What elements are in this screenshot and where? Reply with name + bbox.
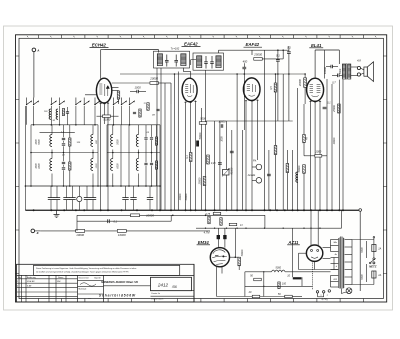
- capacitor mid 231: [230, 150, 234, 152]
- title note box: [34, 265, 180, 275]
- tuner bus junction dots: [25, 185, 27, 187]
- transformer tap wires right: [345, 239, 352, 241]
- svg-text:70000: 70000: [241, 249, 244, 256]
- antenna trimmer cap: [66, 111, 69, 113]
- svg-text:Geprüft: Geprüft: [94, 276, 101, 279]
- tube EM34 target display: [212, 250, 227, 265]
- svg-text:5000: 5000: [339, 68, 342, 74]
- svg-text:10000: 10000: [333, 137, 336, 144]
- dial lamp: [346, 288, 352, 294]
- wire jack connections: [252, 166, 256, 168]
- drawing number box: [151, 277, 192, 290]
- resistor 10000 on y215: [131, 214, 140, 217]
- resistor 50 A: [254, 278, 262, 281]
- wire heater vertical 263.8: [263, 272, 265, 297]
- svg-text:5000: 5000: [362, 274, 364, 280]
- svg-text:25000: 25000: [199, 177, 202, 185]
- oscillator coil block2 row1 left: [111, 135, 113, 147]
- field coil left: [296, 172, 298, 182]
- wire 341.5 link: [341, 210, 343, 228]
- tube EAF42 II envelope: [243, 78, 260, 101]
- svg-text:20: 20: [248, 291, 252, 294]
- tube AZ11 filament arcs: [311, 249, 319, 258]
- svg-text:2412: 2412: [157, 282, 169, 287]
- svg-text:30000: 30000: [185, 193, 188, 200]
- wire switch stubs down to bus: [26, 106, 28, 125]
- tube AZ11 envelope: [306, 245, 322, 261]
- block2 caps cluster: [144, 137, 147, 139]
- svg-text:4,7Ω₂: 4,7Ω₂: [321, 298, 327, 301]
- svg-text:4,7M: 4,7M: [204, 230, 211, 234]
- svg-text:EAF42: EAF42: [245, 42, 259, 47]
- title revision table lines: [17, 278, 78, 280]
- wire 20000 to ECH42: [112, 82, 150, 84]
- resistor 1000 horizontal: [315, 155, 322, 158]
- wire EM34 grid drops: [217, 228, 219, 247]
- resistor 10 dark: [293, 277, 302, 279]
- resistor 4.5 vertical: [303, 135, 306, 143]
- wire heater bus A: [245, 271, 272, 273]
- transformer tap wires left: [331, 239, 339, 241]
- block2 resistors cluster: [155, 137, 157, 145]
- tuner top bus dots: [33, 124, 35, 126]
- resistor 100 vertical: [278, 282, 280, 289]
- svg-text:50000: 50000: [298, 165, 301, 172]
- wire mains feed down: [359, 211, 361, 291]
- svg-text:6,75: 6,75: [206, 214, 211, 216]
- tube EL41 envelope: [307, 78, 324, 101]
- wire mains right verticals: [351, 240, 353, 285]
- svg-text:6000: 6000: [118, 163, 120, 169]
- svg-text:EM34: EM34: [198, 240, 210, 245]
- svg-text:20000: 20000: [299, 79, 302, 88]
- svg-text:5000: 5000: [276, 267, 282, 270]
- wire bus y228 right half: [196, 227, 342, 229]
- Ersatz cells: [151, 290, 195, 292]
- svg-text:1000: 1000: [134, 86, 141, 90]
- frame ruler ticks bottom: [39, 299, 364, 303]
- svg-text:10000: 10000: [219, 121, 227, 124]
- IF1 secondary tuning capacitor: [174, 59, 178, 61]
- tube ECH42 envelope: [96, 78, 111, 103]
- wire output transformer drop: [338, 50, 340, 64]
- mains terminal circles: [373, 258, 375, 260]
- ganged tuning capacitor symbol: [77, 196, 82, 201]
- svg-text:1A: 1A: [378, 248, 381, 251]
- band switch extra: [95, 101, 100, 105]
- frame ruler numerals top: [27, 36, 376, 37]
- wire AZ11 to transformer taps: [323, 247, 331, 249]
- title block outline: [17, 264, 195, 302]
- svg-text:S c h a l t b i l d 5 0 6 W: S c h a l t b i l d 5 0 6 W: [99, 294, 136, 298]
- resistor 13: [229, 223, 237, 225]
- power transformer secondary winding: [343, 238, 344, 288]
- svg-text:Maßstab: Maßstab: [79, 287, 88, 290]
- RF coil block1 row2 left: [50, 159, 52, 171]
- oscillator coil block2 row2 left: [111, 159, 113, 171]
- wire ECH42 grid lead left: [85, 94, 97, 96]
- resistor 6.75: [213, 212, 221, 214]
- resistor mid 191: [189, 153, 192, 162]
- tube EAF42 envelope: [182, 78, 197, 102]
- resistor 20000 (osc anode): [150, 82, 159, 85]
- wire mid verticals A: [160, 68, 162, 210]
- wire 51000 stubs: [97, 115, 103, 117]
- svg-text:220: 220: [332, 279, 337, 281]
- resistor 70000 vertical: [238, 257, 241, 266]
- title table header line: [17, 274, 195, 276]
- block1 caps row1: [62, 137, 65, 139]
- wire ECH42 cathode drops: [100, 103, 102, 211]
- svg-text:51000: 51000: [103, 119, 111, 122]
- wire tuner top bus block2: [107, 124, 160, 126]
- svg-text:1000: 1000: [221, 136, 224, 142]
- resistor 25000 vertical mid: [203, 177, 206, 186]
- svg-text:100: 100: [282, 283, 287, 286]
- speaker terminals: [357, 66, 360, 69]
- tuner mid dots: [30, 152, 32, 154]
- power transformer primary winding: [339, 238, 340, 288]
- svg-text:3000: 3000: [36, 163, 38, 169]
- transformer left vertical links: [330, 240, 332, 252]
- wire EL41 drops: [310, 101, 312, 211]
- mixer grid cluster cap A: [133, 111, 136, 113]
- potentiometer jack lower: [256, 178, 262, 184]
- svg-text:10000: 10000: [179, 193, 182, 200]
- vertical 157: [156, 68, 158, 210]
- chassis bus end circle: [359, 209, 362, 212]
- tube EAF42 II electrodes: [247, 84, 256, 96]
- wire IF1 secondary to EAF42 grid: [182, 68, 184, 72]
- IF2 primary winding: [197, 56, 202, 68]
- wire AZ11 anode drops: [310, 210, 312, 245]
- wire EAF42 anode to IF2: [191, 59, 196, 61]
- fuse 1A upper: [372, 245, 376, 252]
- RF coil block1 row1 left: [50, 135, 52, 147]
- block1 caps row2: [62, 161, 65, 163]
- drawing frame inner border: [19, 38, 383, 298]
- frame ruler ticks top: [39, 35, 364, 39]
- trimmer right pair: [147, 197, 153, 199]
- wire bus y215: [77, 214, 265, 216]
- company cell underline: [104, 285, 151, 287]
- resistor 10000 on y231 B: [117, 230, 126, 233]
- potentiometer Ph jack upper: [256, 164, 262, 170]
- IF1 secondary winding: [181, 54, 186, 66]
- wire cathode tap: [299, 269, 339, 271]
- wire bus y221: [77, 220, 171, 222]
- volume potentiometer 51000: [223, 170, 230, 176]
- wire pins links: [312, 263, 314, 291]
- tube EM34 envelope: [210, 248, 229, 267]
- vertical line 324.5: [324, 50, 326, 79]
- tube EAF42 electrodes: [185, 84, 193, 97]
- svg-text:10000: 10000: [323, 66, 327, 74]
- svg-text:Ersetzt durch: Ersetzt durch: [152, 298, 164, 301]
- svg-text:1A: 1A: [378, 274, 381, 277]
- wire bus y231: [40, 230, 210, 232]
- junction y215: [172, 215, 174, 217]
- RF coil block1 row2 right: [91, 159, 93, 171]
- wire 25000 right to decoupling: [262, 58, 283, 60]
- capacitor 400: [242, 66, 246, 68]
- trimmer block2 pairs: [122, 197, 128, 199]
- svg-text:2M: 2M: [151, 115, 155, 117]
- wire top bus IF2 to EAF42 II: [218, 50, 220, 53]
- mains switch arrow: [371, 258, 376, 262]
- tube EL41 electrodes: [310, 85, 321, 97]
- svg-text:10000: 10000: [76, 233, 84, 237]
- wire ECH42 anode to top bus: [100, 50, 102, 79]
- wire right verticals: [297, 88, 299, 210]
- wire IF2 bus extension: [252, 49, 289, 51]
- resistor 50000 vertical right: [303, 165, 306, 174]
- oscillator coil block2 row1 right: [136, 135, 138, 147]
- svg-text:A: A: [36, 48, 39, 52]
- wire E to bus: [35, 230, 41, 232]
- wire EL41 top bus: [314, 50, 316, 78]
- title middle column lines: [77, 275, 79, 301]
- svg-text:/56: /56: [171, 285, 177, 289]
- svg-text:ECH42: ECH42: [92, 42, 107, 47]
- tuner vertical wires: [24, 106, 26, 210]
- wire transformer bottom to lamp: [340, 289, 342, 294]
- wire down to title area: [264, 215, 266, 228]
- svg-text:4,8: 4,8: [357, 59, 361, 63]
- wire verticals title area: [76, 215, 78, 231]
- trimmer capacitors row: [48, 197, 54, 199]
- resistor small EM34 B: [223, 235, 226, 239]
- resistor 25000 EL41 cathode: [338, 104, 341, 113]
- svg-text:0,7: 0,7: [332, 81, 336, 85]
- tube pin ticks: [100, 103, 102, 105]
- resistor 10000 on y231 A: [76, 230, 85, 233]
- block1 resistor row1: [69, 138, 71, 146]
- component blob 197: [196, 141, 199, 147]
- wire mid verticals B: [214, 121, 216, 210]
- IF2 tuning capacitor B: [210, 61, 214, 63]
- IF1 primary tuning capacitor: [166, 55, 168, 61]
- frame ruler ticks right: [383, 56, 386, 274]
- resistor 50 B: [285, 295, 293, 298]
- svg-text:400: 400: [243, 59, 248, 63]
- mixer grid cluster resistor A: [139, 109, 141, 117]
- svg-text:EAF42: EAF42: [184, 41, 198, 46]
- resistor 0.25 capacitor: [218, 162, 222, 164]
- resistor 5000 mid: [199, 122, 207, 125]
- svg-text:MINERVA-RADIO Wien VII: MINERVA-RADIO Wien VII: [101, 280, 138, 284]
- block1 resistor row2: [69, 162, 71, 170]
- IF transformer Tr I box: [154, 51, 190, 68]
- svg-text:Anode: Anode: [247, 173, 256, 177]
- IF2 secondary winding: [216, 56, 221, 68]
- svg-text:50000: 50000: [199, 132, 202, 139]
- wire heater bus B: [245, 285, 313, 287]
- svg-text:51000: 51000: [230, 167, 233, 174]
- switch mains upper: [373, 238, 375, 245]
- tuner mid horizontal A: [31, 152, 98, 154]
- junction AVC: [244, 73, 246, 75]
- resistor 51000: [103, 115, 111, 118]
- resistor 20000 vertical (EL41 grid): [304, 78, 307, 88]
- resistor ECH42 right: [117, 91, 120, 99]
- junction y228: [205, 228, 206, 229]
- svg-text:Ph.: Ph.: [253, 159, 257, 163]
- tube ECH42 electrodes: [99, 84, 109, 96]
- wire mains connections: [373, 278, 375, 285]
- chassis bus: [25, 209, 358, 211]
- capacitor 0.1 on y221: [107, 219, 109, 223]
- wire EAF42 II drops: [245, 100, 247, 210]
- svg-text:Tr.=182: Tr.=182: [171, 47, 180, 51]
- oscillator coil block2 row2 right: [136, 159, 138, 171]
- wire EM34 anode right: [230, 256, 236, 258]
- IF1 primary winding: [157, 54, 162, 66]
- IF2 tuning capacitor A: [204, 61, 208, 63]
- capacitor (tone) EL41: [330, 65, 332, 69]
- heater wiring choke 5000: [272, 270, 286, 272]
- svg-text:AZ11: AZ11: [287, 240, 299, 245]
- resistor small EM34 A: [217, 235, 220, 239]
- wire antenna lead down: [33, 52, 35, 98]
- tuner mid horizontal B: [107, 152, 160, 154]
- junction IF2 bus: [277, 49, 279, 51]
- fuse 1A lower: [372, 271, 376, 278]
- capacitor 0.1 EL41 cathode: [323, 106, 327, 108]
- mixer grid cluster cap B: [156, 108, 159, 110]
- svg-text:5000: 5000: [200, 117, 206, 120]
- wire transformer to speaker: [351, 66, 358, 68]
- svg-text:WH: WH: [57, 281, 61, 283]
- svg-text:1000: 1000: [96, 163, 98, 169]
- band switch contact row stubs: [26, 98, 28, 104]
- antenna coil upper B: [56, 109, 58, 119]
- capacitor 1000 (osc grid): [136, 90, 138, 93]
- frame ruler ticks left: [16, 56, 20, 274]
- resistor mid 275: [274, 146, 277, 155]
- IF transformer Tr II box: [193, 53, 224, 70]
- resistor 20: [252, 295, 260, 298]
- terminal E: [31, 229, 35, 233]
- power transformer core: [340, 237, 342, 289]
- svg-text:10000: 10000: [146, 214, 154, 218]
- band switch contact row: [27, 101, 32, 105]
- wire 292.7 down: [292, 228, 294, 277]
- loudspeaker: [364, 67, 367, 76]
- wire tuner top bus block1: [31, 124, 98, 126]
- antenna coil upper A: [49, 109, 51, 119]
- resistor vertical 221 interbus: [220, 218, 222, 226]
- capacitor 10000 mid: [220, 124, 222, 128]
- svg-text:25000: 25000: [333, 105, 336, 113]
- wire EAF42 drops: [185, 102, 187, 211]
- resistor vertical 208: [207, 155, 210, 164]
- AZ11 socket pins: [316, 291, 318, 293]
- svg-text:ist sträflich und wird gericht: ist sträflich und wird gerichtlich verfo…: [36, 271, 129, 274]
- svg-text:Gezeichnet: Gezeichnet: [79, 276, 90, 279]
- ECH42 pin leads right: [112, 87, 119, 89]
- capacitor mid 268: [267, 173, 271, 175]
- svg-text:6000: 6000: [39, 163, 41, 169]
- wire EM34 cathode drops: [216, 266, 218, 273]
- svg-text:10000: 10000: [118, 233, 126, 237]
- antenna terminal A: [32, 48, 36, 52]
- mixer grid cluster resistor B: [147, 103, 149, 111]
- svg-text:0,1: 0,1: [114, 219, 118, 223]
- svg-text:Ersatz für: Ersatz für: [152, 292, 161, 295]
- wire top bus ECH42 to IF1: [105, 49, 159, 51]
- svg-text:0,25: 0,25: [211, 162, 216, 165]
- output transformer core: [345, 63, 347, 79]
- svg-text:Diese Zeichnung ist unser Eige: Diese Zeichnung ist unser Eigentum. Jede…: [36, 267, 137, 270]
- svg-text:29.4.48: 29.4.48: [26, 280, 35, 283]
- wire heater bottom: [244, 272, 246, 297]
- svg-text:EL41: EL41: [311, 43, 322, 48]
- svg-text:5000: 5000: [118, 139, 120, 145]
- antenna resistor upper: [62, 109, 64, 116]
- drawing frame outer border: [16, 35, 387, 302]
- wire AVC bus y74: [120, 73, 305, 75]
- RF coil block1 row1 right: [91, 135, 93, 147]
- wire tuner bottom bus: [25, 185, 160, 187]
- svg-text:5000: 5000: [362, 247, 364, 253]
- svg-text:1000: 1000: [315, 150, 321, 154]
- resistor vertical 209 interbus: [208, 216, 210, 224]
- wire speaker top link: [361, 68, 364, 70]
- wire AZ11 cathode down: [314, 261, 316, 269]
- svg-text:25000: 25000: [253, 53, 262, 57]
- wire mid horizontal y121: [206, 120, 293, 122]
- chassis bus junctions: [33, 209, 35, 211]
- output transformer windings: [342, 64, 345, 79]
- svg-text:5000: 5000: [39, 139, 41, 145]
- resistor 0.5 vertical (EAF42II anode): [274, 83, 277, 92]
- svg-text:1000: 1000: [36, 139, 38, 145]
- title block right edge: [193, 264, 195, 302]
- tuner inner top line: [40, 132, 75, 134]
- ground symbol: [56, 210, 58, 214]
- resistor 25000 (screen): [254, 58, 263, 61]
- capacitor (tone) EL41 B: [337, 74, 339, 78]
- resistor mid 287 vertical: [286, 164, 289, 173]
- svg-text:NETZ: NETZ: [369, 264, 377, 268]
